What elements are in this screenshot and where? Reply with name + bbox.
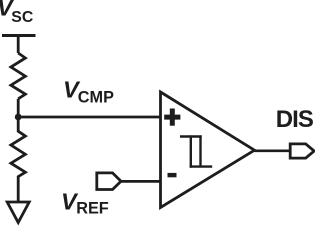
supply rail VSC (2, 34, 36, 37)
svg-text:DIS: DIS (276, 106, 314, 133)
comparator U1 (161, 92, 255, 208)
wire VREF (121, 180, 161, 183)
wire (17, 36, 20, 54)
wire VCMP (18, 116, 160, 119)
hysteresis symbol (180, 135, 212, 167)
resistor R1 (11, 53, 26, 99)
svg-text:SC: SC (11, 9, 33, 26)
net label VCMP (63, 77, 114, 107)
svg-text:REF: REF (76, 200, 109, 218)
wire (17, 99, 20, 120)
output wire DIS (255, 149, 291, 152)
ground arrow (7, 202, 29, 223)
net label VREF (61, 189, 109, 218)
svg-text:CMP: CMP (78, 89, 114, 107)
net label VSC (0, 0, 33, 26)
port DIS (290, 144, 314, 158)
node VCMP junction (15, 114, 22, 121)
plus input pin (164, 109, 180, 126)
minus input pin (168, 173, 177, 177)
port VREF (97, 173, 121, 190)
resistor R2 (11, 120, 26, 202)
